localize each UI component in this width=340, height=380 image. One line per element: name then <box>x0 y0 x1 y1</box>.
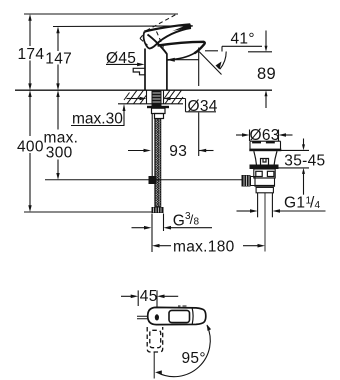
dimension 35-45 <box>275 139 309 195</box>
small dashes above handle <box>178 305 187 307</box>
drain cone flanks <box>254 151 277 164</box>
faucet raised lever (dashed) <box>140 14 178 48</box>
threaded shank (dark) <box>152 90 162 106</box>
dimension 45 <box>121 290 178 307</box>
drain centre tab <box>261 159 269 165</box>
faucet lever tip (filled) <box>172 24 192 31</box>
drain lower body <box>255 178 275 193</box>
svg-text:174: 174 <box>18 46 45 63</box>
faucet lever top edge <box>144 24 190 31</box>
svg-text:max.180: max.180 <box>173 238 235 255</box>
rotated handle centre line <box>153 352 155 378</box>
dimension 93 <box>128 149 214 153</box>
lift rod <box>151 114 153 180</box>
shank thread notches <box>153 93 161 102</box>
mounting hole edges <box>146 90 148 104</box>
leader Ø45 <box>106 63 145 67</box>
hose-end reference line (400 bottom) <box>24 211 152 213</box>
deck bottom line <box>118 103 183 105</box>
basin deck hatch right <box>164 90 184 104</box>
spout tip extension line <box>198 48 200 87</box>
faucet spout underside curve <box>167 53 195 60</box>
dimension 89 <box>248 31 272 109</box>
supply hose (braided) <box>155 119 161 207</box>
41 degree callout <box>199 46 262 74</box>
pop-up knob at rear <box>133 68 145 75</box>
clevis block <box>251 177 256 186</box>
reference line 174 top <box>24 13 178 15</box>
drain flange (dark) <box>250 165 279 170</box>
handle top view body <box>148 307 206 324</box>
svg-text:G1: G1 <box>284 195 305 212</box>
faucet lever underside <box>149 28 191 49</box>
drain body with overflow slots <box>254 169 275 178</box>
Ø34 callout <box>127 97 217 112</box>
dimension max.300 <box>56 90 59 180</box>
G3/8 dimension <box>132 214 213 232</box>
svg-text:45: 45 <box>140 288 158 305</box>
svg-text:35-45: 35-45 <box>284 153 325 170</box>
svg-text:95°: 95° <box>182 350 206 367</box>
G1 1/4 leader <box>237 209 326 213</box>
G3/8 hose nut <box>152 207 164 213</box>
svg-text:8: 8 <box>194 217 200 228</box>
faucet lever front edge curve to body <box>148 35 167 54</box>
svg-text:G: G <box>173 212 185 229</box>
handle stub <box>137 316 148 319</box>
svg-text:93: 93 <box>169 143 187 160</box>
svg-text:89: 89 <box>257 65 276 83</box>
pop-up rod joint (square) <box>149 176 157 184</box>
pop-up rod ball nut <box>242 175 251 187</box>
reference line 147 top <box>53 25 193 28</box>
dimension 147 <box>56 27 59 91</box>
svg-text:41°: 41° <box>231 31 255 48</box>
handle joint line <box>191 308 194 324</box>
handle pivot dot <box>155 314 159 320</box>
max.30 callout <box>71 104 126 126</box>
drain tailpipe <box>258 193 273 252</box>
svg-text:Ø45: Ø45 <box>106 50 136 67</box>
deck line <box>15 89 272 91</box>
rotated handle (dashed) <box>147 327 163 352</box>
handle inner rounded rect <box>169 310 190 322</box>
svg-text:Ø63: Ø63 <box>250 127 280 144</box>
95 degree arc <box>155 324 211 376</box>
basin deck hatch left <box>124 90 147 104</box>
washer under deck <box>147 106 169 108</box>
max.180 dimension <box>152 214 265 253</box>
mounting nut <box>152 108 166 113</box>
faucet body <box>145 49 167 91</box>
svg-text:Ø34: Ø34 <box>188 98 218 115</box>
drain plug cap <box>249 141 281 151</box>
faucet lever rear edge <box>144 32 149 49</box>
faucet spout top edge and tip <box>158 42 205 54</box>
rod reference line (max.300 bottom / pop-up rod) <box>45 179 242 181</box>
dimension 400 <box>28 90 31 212</box>
svg-text:300: 300 <box>46 145 73 162</box>
dimension 174 <box>28 14 31 90</box>
aerator arrow (spout outlet leader) <box>166 58 198 62</box>
svg-text:4: 4 <box>315 200 321 211</box>
svg-text:max.30: max.30 <box>72 110 123 127</box>
svg-text:147: 147 <box>45 50 72 67</box>
drain Ø63 dimension <box>236 130 293 142</box>
svg-text:400: 400 <box>17 138 44 155</box>
